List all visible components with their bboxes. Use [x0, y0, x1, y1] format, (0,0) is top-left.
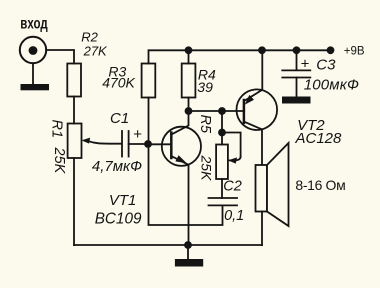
transistor VT1 circle	[162, 127, 201, 166]
capacitor C3 top plate	[282, 69, 310, 71]
bottom ground rail	[74, 244, 262, 246]
svg-text:0,1: 0,1	[224, 208, 244, 224]
wire R5 bottom to C2	[221, 179, 223, 198]
wire rail to R4	[188, 50, 190, 63]
svg-text:BC109: BC109	[95, 210, 142, 227]
main ground bar	[175, 259, 203, 267]
wire R2 to R1	[73, 97, 75, 124]
VT2 emitter arrowhead	[245, 95, 254, 105]
transistor VT2 circle	[236, 89, 277, 130]
wire to main ground	[187, 245, 189, 259]
junction dot collector node	[185, 107, 193, 115]
C3 ground bar	[282, 97, 311, 104]
wire base node down and right to C2 bottom	[149, 144, 223, 225]
R5 wiper wavy lead	[230, 157, 241, 160]
wire base node to VT1 base	[148, 143, 171, 145]
capacitor C2 top plate	[209, 197, 238, 199]
VT1 collector lead	[171, 111, 188, 135]
svg-text:39: 39	[197, 79, 213, 95]
junction dot R5 wiper feed	[218, 129, 226, 137]
svg-text:R2: R2	[81, 30, 98, 45]
svg-text:8-16 Ом: 8-16 Ом	[295, 177, 345, 193]
wire speaker to ground rail	[261, 212, 263, 246]
wire R4 bottom to collector node	[188, 98, 190, 112]
wire collector node to VT2 base	[189, 110, 245, 112]
input jack circle	[20, 37, 46, 63]
input jack center pin	[29, 46, 38, 55]
svg-text:4,7мкФ: 4,7мкФ	[92, 158, 142, 175]
VT1 base bar	[170, 133, 173, 159]
svg-text:C3: C3	[316, 56, 336, 73]
resistor R4 body	[182, 64, 196, 98]
junction dot ground rail	[184, 241, 192, 249]
capacitor C3 bottom plate	[282, 77, 310, 79]
wire C1 right plate to base node	[129, 143, 148, 145]
speaker box	[256, 165, 268, 212]
R1 wiper arrow lead to C1	[89, 141, 122, 144]
capacitor C2 bottom plate	[209, 204, 238, 206]
wire R3 bottom to base node	[148, 98, 150, 145]
resistor R2 body	[67, 64, 81, 97]
svg-text:+: +	[301, 55, 310, 72]
junction dot base node	[144, 140, 152, 148]
svg-text:R1: R1	[49, 120, 65, 139]
VT2 emitter lead from rail	[244, 50, 262, 101]
svg-text:C2: C2	[223, 179, 242, 195]
VT1 emitter lead	[171, 156, 188, 245]
wire rail to C3	[296, 50, 298, 70]
junction dot R5 branch	[218, 107, 226, 115]
junction dot rail/R4	[185, 46, 193, 54]
svg-text:27K: 27K	[83, 43, 108, 58]
+9V terminal dot	[327, 46, 335, 54]
svg-text:VT1: VT1	[109, 192, 137, 209]
svg-text:+: +	[133, 126, 142, 143]
svg-text:25K: 25K	[199, 155, 215, 182]
wire C3 to its ground	[296, 78, 298, 97]
VT2 base bar	[243, 100, 246, 123]
svg-text:AC128: AC128	[295, 130, 343, 147]
input ground bar	[21, 84, 50, 90]
svg-text:25K: 25K	[51, 147, 67, 175]
R5 wiper arrowhead	[228, 157, 237, 163]
wire jack to R2 top corner	[46, 50, 74, 64]
wire branch down to R5	[221, 111, 223, 145]
svg-text:C1: C1	[110, 110, 129, 127]
wire jack to input ground	[32, 63, 34, 84]
R5 wiper feed wire	[222, 133, 241, 158]
resistor R3 body	[142, 64, 156, 98]
capacitor C1 left plate	[121, 131, 123, 157]
capacitor C1 right plate	[128, 131, 130, 157]
svg-text:+9В: +9В	[344, 46, 365, 58]
svg-text:вход: вход	[20, 14, 48, 32]
junction dot rail/VT2 emitter	[258, 46, 266, 54]
speaker cone	[267, 143, 289, 226]
potentiometer R1 body	[68, 124, 82, 159]
wire R1 bottom to ground rail	[73, 158, 75, 245]
VT1 emitter arrowhead	[175, 155, 186, 163]
svg-text:470K: 470K	[102, 75, 135, 91]
top +9V rail	[149, 50, 331, 63]
VT2 collector lead	[244, 122, 262, 165]
svg-text:R5: R5	[197, 115, 213, 134]
potentiometer R5 body	[216, 145, 228, 180]
R1 wiper arrowhead	[82, 138, 91, 144]
svg-text:100мкФ: 100мкФ	[304, 77, 359, 94]
junction dot rail/C3	[293, 46, 301, 54]
